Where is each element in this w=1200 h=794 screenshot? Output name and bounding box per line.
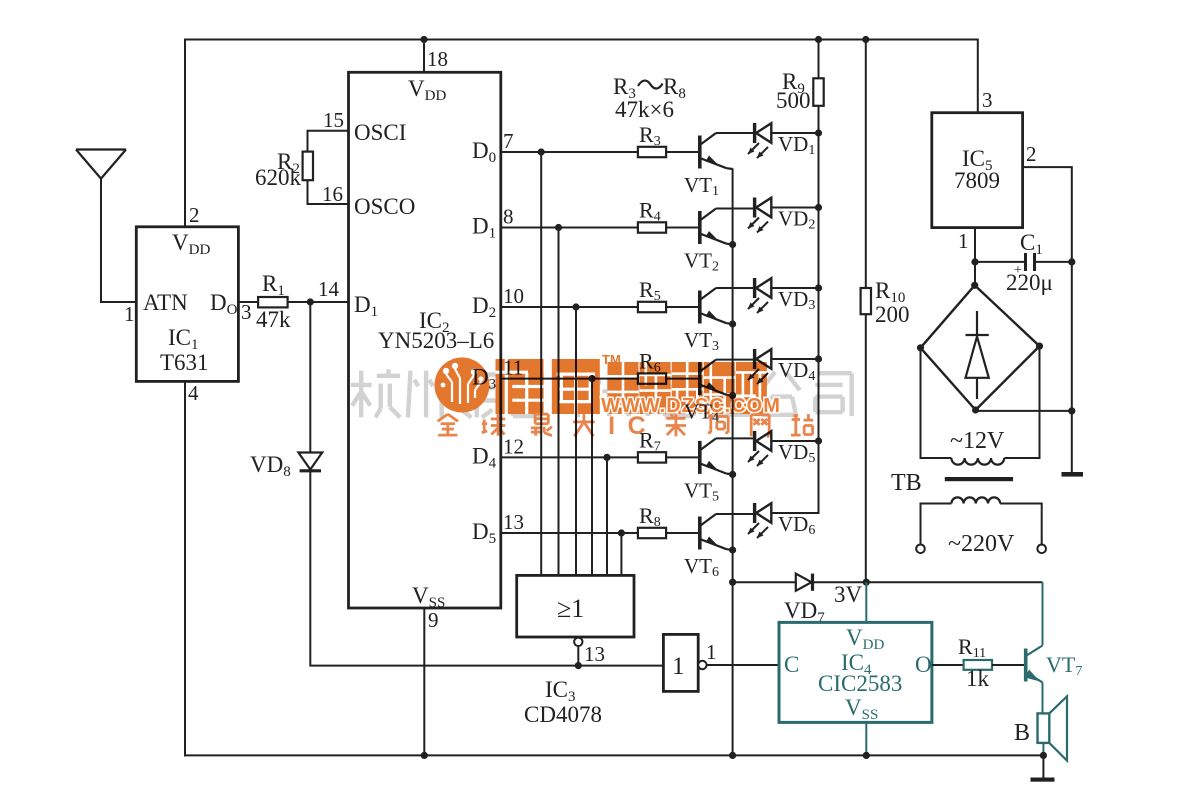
wire D0 row [501,151,638,153]
node emitter rail ground junction [729,752,736,759]
svg-text:9: 9 [428,608,439,632]
speaker B [1038,696,1068,760]
svg-text:500: 500 [776,88,811,113]
wire D1 row [501,227,638,229]
svg-text:VT3: VT3 [684,328,719,354]
wire R5 to VT3 base [666,306,699,308]
wire ground stub [1042,755,1044,778]
wire emitter rail to VD7 [733,581,796,583]
svg-text:7: 7 [503,129,514,153]
node R1-D1 junction [307,298,314,305]
node 3V junction [863,579,870,586]
wire 3V to VT7 collector [1042,582,1044,645]
resistor R7 [638,452,666,462]
node VD5 rail junction [815,437,822,444]
wire R7 to VT5 base [666,456,699,458]
resistor R8 [638,528,666,538]
wire VT7 emitter to speaker [1042,682,1044,713]
wire VD8 to gate output node [310,471,578,666]
wire R8 to VT6 base [666,532,699,534]
node D2 junction [572,303,579,310]
gate U3 inverter box [663,634,698,691]
node VD4 rail junction [815,355,822,362]
wire D4 to gate input [606,457,608,576]
wire speaker to ground rail [1042,743,1044,756]
svg-text:R4: R4 [639,198,661,225]
node VD3 rail junction [815,284,822,291]
svg-text:VD5: VD5 [778,440,815,466]
svg-text:TB: TB [891,470,922,496]
wire left rail lower [184,381,186,756]
wire left rail upper [184,39,186,227]
wire collector to LED VD1 [716,132,754,134]
svg-text:220μ: 220μ [1006,270,1053,295]
wire IC5 pin 2 [1023,167,1072,262]
transistor Q1 VT1 [700,133,733,169]
svg-text:VT6: VT6 [684,554,719,580]
svg-text:13: 13 [584,642,605,666]
svg-text:4: 4 [188,381,199,405]
wire VD5 to LED rail [771,440,818,442]
node pin18 junction [420,36,427,43]
diode VD7 [796,574,813,591]
resistor R1 [258,297,288,307]
wire 3V to IC4 VDD [865,582,867,622]
svg-text:10: 10 [503,284,524,308]
node bridge top [971,282,978,289]
svg-text:13: 13 [503,510,524,534]
wire D2 to gate input [575,307,577,577]
wire bridge right to winding [1004,346,1039,458]
node VD1 rail junction [815,129,822,136]
transistor Q5 VT5 [700,438,733,474]
wire D1 to gate input [558,228,560,577]
svg-text:CD4078: CD4078 [524,702,602,727]
wire D0 to gate input [540,152,542,577]
svg-text:B: B [1014,720,1030,746]
svg-text:VD4: VD4 [778,358,815,384]
transistor Q2 VT2 [700,209,733,245]
wire D3 to gate input [591,379,593,577]
wire D4 row [501,456,638,458]
diode VD8 [298,453,322,471]
svg-text:12: 12 [503,434,524,458]
svg-text:R8: R8 [639,503,661,530]
gate U3 OR box [517,575,634,637]
wire bridge left to winding [921,348,952,458]
wire R10 column lower [865,314,867,582]
transformer TB core [945,477,1013,481]
wire VD6 to LED rail [771,441,818,513]
svg-text:C1: C1 [1020,230,1043,258]
resistor R6 [638,373,666,383]
wire VD3 to LED rail [771,287,818,289]
wire VD2 to LED rail [771,207,818,209]
node D4 junction [603,454,610,461]
wire D5 row [501,532,638,534]
resistor R2 [303,152,313,181]
LED VD2 [748,198,771,233]
svg-text:R1: R1 [262,271,285,299]
node speaker ground junction [1040,752,1047,759]
svg-text:2: 2 [189,203,200,227]
resistor R10 [861,288,871,314]
node VT6 emitter junction [729,546,736,553]
wire VD1 to LED rail [771,132,818,134]
svg-text:1k: 1k [966,666,990,691]
transformer TB primary 220V winding [951,497,1000,503]
wire VD4 to LED rail [771,358,818,360]
svg-text:OSCO: OSCO [354,194,415,219]
svg-text:VT1: VT1 [684,173,719,199]
wire collector to LED VD2 [716,208,754,210]
transistor Q4 VT4 [700,360,733,396]
resistor R4 [638,222,666,232]
svg-text:2: 2 [1026,142,1037,166]
ground power supply [1062,472,1084,477]
svg-text:15: 15 [323,108,344,132]
svg-text:YN5203–L6: YN5203–L6 [378,328,494,353]
wire R6 to VT4 base [666,378,699,380]
svg-text:~220V: ~220V [948,531,1015,557]
terminal 220V left [916,545,925,554]
svg-text:VD3: VD3 [778,287,815,313]
svg-text:18: 18 [427,47,448,71]
wire IC4 VSS to ground rail [865,722,867,755]
svg-text:3: 3 [241,300,252,324]
svg-text:620k: 620k [255,165,302,190]
resistor R9 [813,78,823,106]
svg-text:47k: 47k [256,307,291,332]
node D1 junction [555,224,562,231]
svg-text:1: 1 [672,653,685,680]
transistor Q3 VT3 [700,288,733,324]
wire VD7 to 3V node [812,581,1043,583]
svg-text:R3: R3 [639,122,661,149]
node IC5 output junction [971,258,978,265]
wire D3 row [501,378,638,380]
wire IC2 pin 18 [423,40,425,73]
svg-text:47k×6: 47k×6 [615,97,674,122]
wire OSCI stub [308,131,349,152]
wire bridge bottom to ground column [976,410,1072,412]
capacitor C1 [1026,253,1035,271]
transistor Q7 VT7 [1025,646,1043,683]
svg-text:1: 1 [124,302,135,326]
wire bottom ground rail [184,754,1043,756]
wire emitter rail [732,169,734,756]
svg-text:VT5: VT5 [684,478,719,504]
bridge rectifier [921,285,1040,410]
node bridge bottom [972,406,979,413]
wire OSCO stub [308,180,349,204]
svg-text:1: 1 [958,229,969,253]
svg-text:OSCI: OSCI [354,120,406,145]
IC U1 T631 box [136,227,238,382]
wire collector to LED VD4 [716,359,754,361]
svg-text:~12V: ~12V [950,428,1005,454]
wire IC1 DO to R1 [238,301,258,303]
svg-text:1: 1 [706,640,717,664]
svg-text:CIC2583: CIC2583 [818,671,902,696]
svg-text:VT7: VT7 [1046,652,1082,679]
wire R11 to VT7 base [992,664,1025,666]
wire R10 column upper [865,40,867,289]
node bridge ground junction [1068,407,1075,414]
node emitter-VD7 junction [729,579,736,586]
node C1 right junction [1068,258,1075,265]
resistor R3 [638,147,666,157]
terminal 220V right [1037,545,1046,554]
svg-text:7809: 7809 [954,168,1000,193]
node gate output junction [575,662,582,669]
node pin9 ground junction [421,752,428,759]
svg-text:VD2: VD2 [778,207,815,233]
wire D5 to gate input [620,533,622,577]
node IC4 VSS ground junction [863,752,870,759]
IC U4 CIC2583 box [779,622,932,722]
transformer TB secondary 12V winding [951,458,1004,465]
wire R9 top lead [818,40,820,79]
wire C1 to right column [1035,261,1072,263]
svg-text:ATN: ATN [143,290,188,315]
wire right column down [1071,262,1073,472]
svg-text:≥1: ≥1 [557,594,584,623]
svg-text:O: O [915,652,932,677]
wire collector to LED VD3 [716,287,754,289]
wire 220V left terminal [921,504,952,545]
wire IC5 pin 1 [974,228,976,262]
gate output bubble [574,638,582,646]
wire R1 to IC2 pin 14 [288,301,349,303]
svg-text:T631: T631 [160,350,209,375]
svg-text:VD1: VD1 [778,132,815,158]
node VT4 emitter junction [729,392,736,399]
svg-text:14: 14 [318,277,340,301]
node VT5 emitter junction [729,471,736,478]
wire gate output [577,646,579,666]
IC U5 7809 box [932,113,1023,228]
LED VD1 [748,123,771,158]
ground speaker [1031,778,1055,782]
svg-text:I: I [608,412,615,440]
resistor R11 [964,660,992,670]
resistor R5 [638,302,666,312]
inverter output bubble [698,661,706,669]
wire antenna lead [101,179,136,302]
wire gate to inverter [578,665,663,667]
watermark brand characters [496,359,600,414]
svg-text:VT2: VT2 [684,249,719,275]
node bridge left [917,344,924,351]
svg-text:VD8: VD8 [250,452,291,480]
wire R3 to VT1 base [666,151,699,153]
svg-text:3V: 3V [834,582,863,607]
watermark market characters [608,362,767,414]
node D0 junction [538,148,545,155]
node D3 junction [588,375,595,382]
wire IC5 in to bridge [974,262,976,285]
wire R1 junction down [309,302,311,452]
IC U2 YN5203-L6 box [349,72,501,608]
svg-text:3: 3 [982,88,993,112]
svg-text:16: 16 [322,182,343,206]
wire 220V right terminal [1000,504,1041,545]
LED VD5 [748,431,771,466]
svg-text:C: C [628,412,646,440]
svg-text:VD6: VD6 [778,512,815,538]
antenna [76,150,126,179]
watermark grey company name [351,369,852,417]
node D5 junction [618,529,625,536]
transistor Q6 VT6 [700,514,733,550]
wire collector to LED VD5 [716,437,754,439]
wire top supply rail [185,39,978,41]
svg-text:200: 200 [875,302,910,327]
wire collector to LED VD6 [716,513,754,515]
wire IC5 out to C1 [975,261,1026,263]
wire LED rail [818,106,820,513]
node VD2 rail junction [815,204,822,211]
svg-text:8: 8 [503,205,514,229]
node VT2 emitter junction [729,241,736,248]
watermark slogan row [438,414,595,436]
wire R4 to VT2 base [666,227,699,229]
svg-text:C: C [784,652,799,677]
svg-text:R11: R11 [958,634,986,661]
bridge inner diode [966,311,989,399]
wire top rail to IC5 pin 3 [976,40,979,113]
node VT3 emitter junction [729,320,736,327]
node bridge right [1036,343,1043,350]
wire D2 row [501,306,638,308]
wire inverter to IC4 C [707,664,779,666]
LED VD4 [748,349,771,384]
svg-text:IC3: IC3 [545,677,576,705]
watermark logo disc [435,358,490,413]
wire IC2 pin 9 to ground rail [423,608,425,755]
node R9 top junction [815,36,822,43]
LED VD3 [748,278,771,313]
node R10 top junction [862,36,869,43]
svg-text:R5: R5 [639,277,661,304]
wire IC4 O to R11 [932,664,964,666]
LED VD6 [748,503,771,538]
